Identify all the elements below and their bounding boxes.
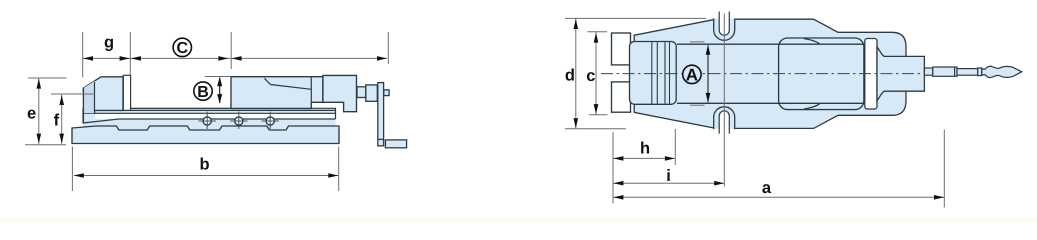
svg-text:B: B — [197, 84, 209, 101]
svg-text:b: b — [199, 156, 209, 174]
svg-text:d: d — [565, 67, 575, 85]
svg-text:e: e — [27, 104, 36, 122]
svg-text:i: i — [666, 167, 671, 185]
svg-text:C: C — [177, 40, 189, 57]
svg-text:f: f — [54, 111, 60, 129]
svg-text:g: g — [104, 33, 114, 51]
svg-text:A: A — [686, 66, 698, 85]
svg-text:c: c — [586, 67, 595, 85]
svg-text:a: a — [762, 179, 772, 197]
svg-text:h: h — [640, 139, 650, 157]
